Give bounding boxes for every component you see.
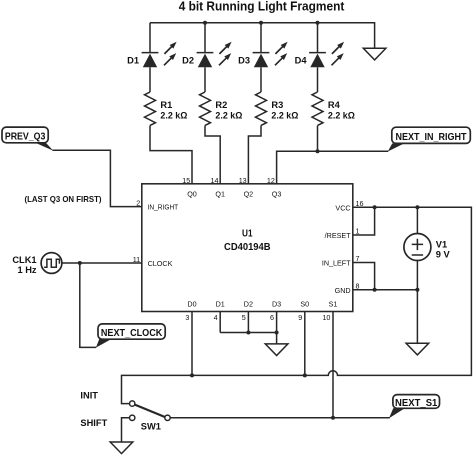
junction rail-D4 [316, 21, 320, 25]
clock source CLK1 [41, 253, 62, 274]
voltage source V1 [404, 234, 431, 261]
svg-text:SHIFT: SHIFT [80, 418, 107, 428]
wire rail to D4 [317, 23, 319, 53]
svg-text:D3: D3 [238, 55, 250, 65]
wire S0 pin 9 down to VCC row [304, 312, 306, 376]
svg-text:4: 4 [214, 313, 218, 322]
junction rail-D3 [259, 21, 263, 25]
svg-text:Q0: Q0 [187, 189, 197, 198]
junction Q3-R4 [316, 149, 320, 153]
wire D1-D2-D3 tie [220, 332, 276, 334]
svg-text:D4: D4 [295, 55, 308, 65]
wire S1 pin 10 down to switch common (hops VCC row) [332, 312, 334, 418]
junction VCC-/RESET [373, 205, 377, 209]
svg-text:D2: D2 [244, 299, 253, 308]
svg-text:10: 10 [322, 313, 330, 322]
svg-text:R1: R1 [160, 100, 172, 110]
svg-text:1 Hz: 1 Hz [17, 265, 36, 275]
ground D1-D3 [265, 344, 288, 356]
wire rail to D3 [260, 23, 262, 53]
svg-text:S0: S0 [300, 299, 309, 308]
net flag NEXT_CLOCK [96, 324, 165, 348]
junction D0-VCC row [190, 373, 194, 377]
IC U1 CD40194B body [142, 184, 353, 312]
svg-text:12: 12 [267, 176, 275, 185]
wire VCC to V1 top [416, 207, 418, 233]
wire D3 to R3 [260, 67, 262, 92]
svg-text:R2: R2 [215, 100, 227, 110]
junction clock branch [78, 261, 82, 265]
svg-text:U1: U1 [242, 228, 253, 239]
svg-text:D3: D3 [272, 299, 281, 308]
junction S0-VCC row [303, 373, 307, 377]
svg-text:9 V: 9 V [436, 249, 451, 259]
wire D0 pin 3 down to VCC row [191, 312, 193, 376]
junction S1-common [331, 416, 335, 420]
net flag NEXT_S1 [389, 395, 440, 419]
wire Q3 pin 12 to NEXT_IN_RIGHT [277, 151, 389, 184]
junction rail-D2 [203, 21, 207, 25]
net flag PREV_Q3 [2, 127, 53, 151]
wire clock branch down to NEXT_CLOCK [80, 263, 97, 347]
wire R1 to pin 15 [150, 126, 192, 184]
wire GND pin 8 to V1 branch [353, 289, 418, 291]
svg-text:CLOCK: CLOCK [148, 259, 173, 268]
wire CLK1 to pin 11 CLOCK [62, 262, 142, 264]
svg-text:GND: GND [335, 286, 351, 295]
svg-text:Q2: Q2 [244, 189, 254, 198]
svg-text:D1: D1 [127, 55, 139, 65]
wire V1 minus down through GND row to ground [416, 260, 418, 343]
svg-text:PREV_Q3: PREV_Q3 [5, 132, 46, 143]
junction D2 tie [246, 331, 250, 335]
svg-text:16: 16 [356, 199, 364, 208]
svg-text:IN_RIGHT: IN_RIGHT [148, 203, 179, 212]
svg-text:R4: R4 [328, 100, 341, 110]
wire R2 to pin 14 [205, 126, 220, 184]
wire SHIFT contact to ground [122, 418, 130, 442]
wire D4 to R4 [317, 67, 319, 92]
wire VCC pin 16 to right rail down to switch INIT row [122, 207, 472, 403]
ground top right [363, 48, 386, 60]
wire D2 pin 5 down [247, 312, 249, 333]
wire IN_LEFT pin 7 tie to GND [353, 263, 375, 290]
svg-text:VCC: VCC [335, 203, 350, 212]
junction D3 tie [275, 331, 279, 335]
svg-text:/RESET: /RESET [325, 231, 352, 240]
svg-text:D0: D0 [187, 299, 196, 308]
svg-text:6: 6 [270, 313, 274, 322]
svg-text:2.2 kΩ: 2.2 kΩ [215, 111, 243, 121]
wire rail to D1 [149, 23, 151, 53]
svg-text:S1: S1 [329, 299, 338, 308]
svg-text:INIT: INIT [80, 390, 98, 400]
svg-text:5: 5 [242, 313, 246, 322]
svg-text:CLK1: CLK1 [12, 255, 36, 265]
LED D2 [197, 42, 232, 68]
svg-text:2.2 kΩ: 2.2 kΩ [328, 111, 356, 121]
svg-text:Q1: Q1 [215, 189, 225, 198]
svg-text:NEXT_CLOCK: NEXT_CLOCK [101, 328, 163, 339]
wire /RESET pin 1 tie to VCC [353, 207, 375, 235]
LED D4 [309, 42, 344, 68]
junction GND-IN_LEFT [373, 288, 377, 292]
junction GND-V1 minus [415, 288, 419, 292]
wire R4 down to Q3 net [317, 126, 319, 152]
svg-text:3: 3 [185, 313, 189, 322]
resistor R2 [200, 92, 211, 125]
svg-text:(LAST Q3 ON FIRST): (LAST Q3 ON FIRST) [25, 194, 102, 204]
resistor R1 [145, 92, 156, 125]
wire D1 pin 4 down [219, 312, 221, 333]
svg-text:CD40194B: CD40194B [224, 242, 271, 253]
wire D2 to R2 [204, 67, 206, 92]
svg-text:SW1: SW1 [141, 422, 161, 432]
resistor R3 [256, 92, 267, 125]
svg-text:Q3: Q3 [272, 189, 282, 198]
switch SW1 lever [135, 405, 165, 417]
ground SHIFT [110, 442, 133, 454]
wire switch common to NEXT_S1 [170, 417, 390, 419]
svg-text:9: 9 [298, 313, 302, 322]
LED D3 [253, 42, 288, 68]
svg-text:7: 7 [356, 254, 360, 263]
svg-text:V1: V1 [436, 240, 447, 250]
svg-text:2.2 kΩ: 2.2 kΩ [271, 111, 299, 121]
wire D3 pin 6 down to ground [276, 312, 278, 344]
junction VCC-V1 plus [415, 205, 419, 209]
wire D1 to R1 [149, 67, 151, 92]
wire R3 to pin 13 [248, 126, 261, 184]
resistor R4 [312, 92, 323, 125]
svg-text:R3: R3 [271, 100, 283, 110]
svg-text:D1: D1 [216, 299, 225, 308]
switch SW1 contacts [130, 401, 171, 421]
svg-text:4 bit Running Light Fragment: 4 bit Running Light Fragment [179, 0, 345, 14]
svg-text:14: 14 [211, 176, 219, 185]
svg-text:2.2 kΩ: 2.2 kΩ [160, 111, 188, 121]
svg-text:NEXT_S1: NEXT_S1 [395, 398, 438, 409]
wire PREV_Q3 to pin 2 IN_RIGHT [53, 150, 142, 206]
wire top LED supply rail to ground [150, 23, 375, 49]
svg-text:NEXT_IN_RIGHT: NEXT_IN_RIGHT [396, 132, 468, 143]
svg-text:IN_LEFT: IN_LEFT [322, 259, 351, 268]
ground V1 [406, 343, 429, 355]
svg-text:15: 15 [182, 176, 190, 185]
wire rail to D2 [204, 23, 206, 53]
LED D1 [142, 42, 177, 68]
net flag NEXT_IN_RIGHT [388, 127, 471, 151]
svg-text:D2: D2 [182, 55, 194, 65]
svg-text:13: 13 [239, 176, 247, 185]
